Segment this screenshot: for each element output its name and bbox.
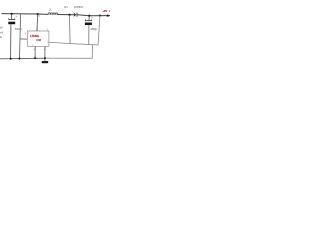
svg-text:L1: L1 [49,7,52,11]
node ground C1 [10,58,12,60]
svg-text:CS8: CS8 [36,39,41,42]
svg-text:+: + [91,16,93,19]
inductor L1 [48,13,58,15]
svg-text:3: 3 [38,16,40,18]
svg-text:100µ: 100µ [90,27,97,31]
ground stub [44,58,46,61]
capacitor C2 top plate [85,19,92,22]
ground bar [42,61,49,63]
node Vin junction [37,13,39,15]
wire C2 top lead [88,16,90,21]
wire Vin top pin vertical [36,14,39,31]
svg-text:cell: cell [0,30,3,34]
svg-text:B: B [109,9,110,13]
wire IC left pin [20,38,27,40]
svg-text:1N5817: 1N5817 [74,5,84,9]
svg-text:3al: 3al [0,26,3,30]
wire C1 top lead [10,14,12,19]
capacitor C2 bottom plate [85,23,92,26]
svg-text:ult: ult [0,35,2,39]
wire top rail right of diode [77,14,110,17]
node ground shutdown [18,58,20,60]
wire IC bottom pin a [34,46,36,58]
wire bottom ground rail [0,57,45,60]
svg-text:I: I [28,33,29,35]
wire C2 bottom lead [88,25,90,45]
wire bottom ground rail right [45,57,92,59]
node input junction [11,13,13,15]
wire top rail [2,13,49,16]
node ground pin a [34,57,36,59]
wire feedback right vertical [98,16,100,45]
wire top rail right of inductor [58,14,74,16]
wire ground drop right [91,45,93,59]
svg-text:D1: D1 [64,5,68,9]
wire SW vertical [69,15,72,44]
wire shutdown vertical [20,14,21,59]
diode D1 [74,13,77,17]
node output cap junction [88,15,90,17]
svg-text:LT1301: LT1301 [30,34,39,38]
node feedback junction [99,15,101,17]
svg-text:5: 5 [25,34,27,36]
node output terminal [107,15,109,17]
wire C1 bottom lead [10,24,12,59]
svg-text:+: + [15,15,17,18]
node ground pin b [44,57,46,59]
svg-text:100µ: 100µ [15,27,22,31]
wire feedback gray line [49,42,98,45]
wire IC bottom pin b [44,46,46,58]
node SW junction [68,14,70,16]
capacitor C1 top plate [8,18,15,21]
op-amp U1 box LT1301 [27,31,49,46]
capacitor C1 bottom plate [8,22,15,25]
svg-text:+6V: +6V [103,9,108,13]
